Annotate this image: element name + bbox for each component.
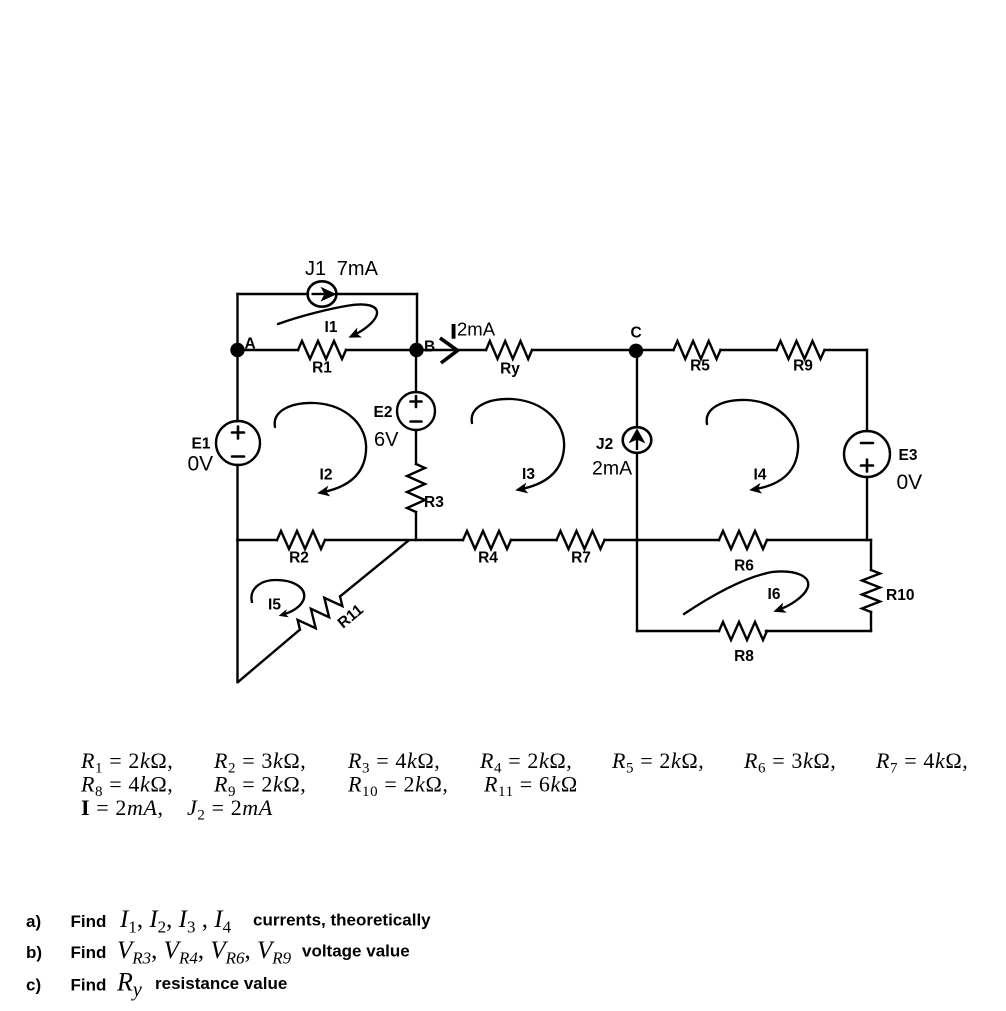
svg-text:R11 = 6kΩ: R11 = 6kΩ bbox=[483, 772, 578, 801]
svg-text:I3: I3 bbox=[522, 466, 535, 483]
svg-text:R6: R6 bbox=[734, 558, 754, 575]
svg-text:E1: E1 bbox=[192, 436, 211, 453]
svg-text:I4: I4 bbox=[754, 467, 767, 484]
svg-text:R7 = 4kΩ,: R7 = 4kΩ, bbox=[875, 748, 968, 777]
svg-text:a): a) bbox=[26, 912, 41, 931]
svg-text:R1: R1 bbox=[312, 360, 332, 377]
svg-text:6V: 6V bbox=[374, 429, 399, 451]
svg-text:Ry: Ry bbox=[500, 361, 520, 378]
svg-text:E3: E3 bbox=[899, 447, 918, 464]
svg-text:R6 = 3kΩ,: R6 = 3kΩ, bbox=[743, 748, 836, 777]
svg-text:Find: Find bbox=[71, 976, 107, 995]
svg-text:currents, theoretically: currents, theoretically bbox=[253, 911, 431, 930]
svg-text:I2: I2 bbox=[320, 467, 333, 484]
svg-text:R2: R2 bbox=[289, 550, 309, 567]
svg-text:Find: Find bbox=[71, 943, 107, 962]
svg-text:R5: R5 bbox=[690, 358, 710, 375]
svg-text:E2: E2 bbox=[374, 404, 393, 421]
svg-text:voltage value: voltage value bbox=[302, 942, 410, 961]
svg-text:I5: I5 bbox=[268, 597, 281, 614]
svg-text:R10: R10 bbox=[886, 587, 914, 604]
svg-text:2mA: 2mA bbox=[457, 319, 496, 340]
svg-text:R9: R9 bbox=[793, 358, 813, 375]
svg-text:R8: R8 bbox=[734, 648, 754, 665]
svg-text:A: A bbox=[245, 336, 256, 353]
svg-text:7mA: 7mA bbox=[337, 258, 379, 280]
svg-text:I6: I6 bbox=[768, 586, 781, 603]
svg-text:2mA: 2mA bbox=[592, 458, 632, 480]
svg-text:I1: I1 bbox=[325, 319, 338, 336]
svg-text:Find: Find bbox=[71, 912, 107, 931]
svg-text:b): b) bbox=[26, 943, 42, 962]
svg-text:C: C bbox=[631, 325, 642, 342]
svg-text:R7: R7 bbox=[571, 550, 591, 567]
svg-text:0V: 0V bbox=[897, 471, 923, 494]
svg-text:I1, I2, I3 , I4: I1, I2, I3 , I4 bbox=[119, 906, 232, 937]
svg-text:c): c) bbox=[26, 976, 41, 995]
svg-text:B: B bbox=[424, 339, 435, 356]
svg-text:J2: J2 bbox=[596, 436, 613, 453]
svg-text:0V: 0V bbox=[188, 453, 214, 476]
svg-text:R5 = 2kΩ,: R5 = 2kΩ, bbox=[611, 748, 704, 777]
svg-text:R3: R3 bbox=[424, 494, 444, 511]
svg-text:R4: R4 bbox=[478, 550, 498, 567]
svg-text:resistance value: resistance value bbox=[155, 974, 287, 993]
svg-text:J1: J1 bbox=[305, 258, 326, 280]
svg-text:I = 2mA,: I = 2mA, bbox=[81, 795, 164, 820]
